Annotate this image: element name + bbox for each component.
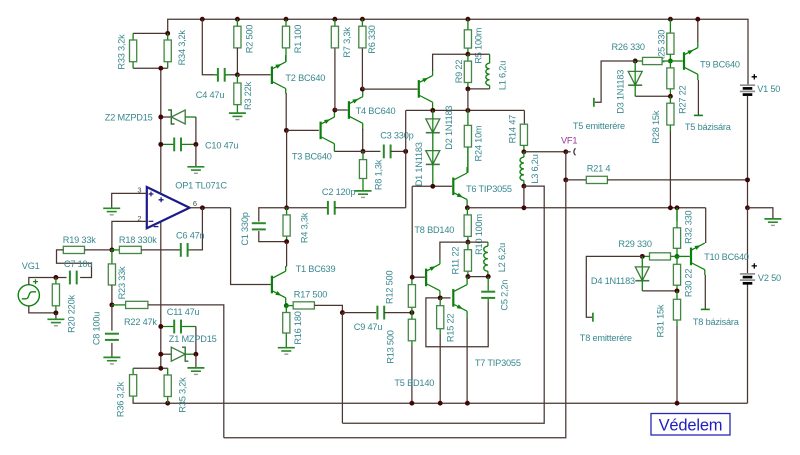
resistor R23 — [111, 250, 113, 264]
resistor R7 — [334, 19, 336, 26]
node R14 bottom / L3 top — [521, 149, 526, 154]
svg-text:R31 15k: R31 15k — [656, 304, 666, 337]
wire output down to C6 — [191, 208, 203, 250]
node R32 top on output rail — [675, 205, 680, 210]
capacitor C1 — [252, 222, 266, 224]
terminal T5 emitter — [593, 98, 595, 107]
wire T5 base — [362, 88, 417, 90]
resistor R16 — [285, 306, 287, 348]
svg-text:R33 3,2k: R33 3,2k — [117, 34, 127, 70]
wire T2 collector down — [285, 93, 287, 130]
svg-text:T10 BC640: T10 BC640 — [704, 252, 749, 262]
wire T3 collector run — [334, 150, 363, 152]
node R34 top — [165, 31, 170, 36]
op-amp OP1 TL071C — [147, 187, 190, 228]
inductor L1 — [489, 54, 491, 89]
wire T8 emitter up to R10/R11 node — [440, 242, 468, 259]
wire T5 collector riser / bias net — [406, 109, 525, 111]
svg-text:C1 330p: C1 330p — [240, 212, 250, 245]
svg-text:R5 100m: R5 100m — [474, 27, 484, 63]
ground at pin3 — [103, 207, 120, 209]
wire T6 base row — [412, 185, 452, 187]
inductor L2 — [487, 242, 489, 246]
resistor R14 — [523, 123, 525, 125]
svg-text:T6 TIP3055: T6 TIP3055 — [466, 184, 512, 194]
node R6 bottom / T4 emitter — [360, 87, 365, 92]
node R15 on -rail — [438, 401, 443, 406]
node op-amp output — [200, 205, 205, 210]
diode D4 — [641, 256, 643, 267]
node D3 anode — [633, 59, 638, 64]
node T2 collector / T3 base — [284, 128, 289, 133]
node L2/C5 — [486, 274, 491, 279]
node rail-R35 top — [158, 366, 163, 371]
node L3 bottom — [521, 184, 526, 189]
svg-text:T7 TIP3055: T7 TIP3055 — [475, 358, 521, 368]
svg-text:OP1 TL071C: OP1 TL071C — [175, 181, 227, 191]
node T3/T4 collectors R8 C3 — [361, 149, 366, 154]
transistor T2 — [271, 66, 273, 84]
svg-text:C3 330p: C3 330p — [380, 131, 413, 141]
resistor R8 — [362, 151, 364, 190]
wire to ground — [748, 208, 773, 219]
wire C4 to R2/R3 node — [230, 74, 237, 76]
wire D1 to T6 base node — [432, 164, 434, 186]
resistor R11 — [467, 242, 469, 277]
ground under R20 — [47, 318, 64, 320]
node T1 emitter / R17 / R16 — [284, 303, 289, 308]
node R2/R3/C4/T2 base — [235, 72, 240, 77]
wire output to T1 base — [231, 208, 271, 285]
wire to ground — [195, 144, 197, 166]
svg-text:C7 10u: C7 10u — [64, 259, 93, 269]
node R31 on -rail — [675, 401, 680, 406]
svg-text:L1 6,2u: L1 6,2u — [498, 61, 508, 90]
transistor T1 — [271, 276, 273, 294]
wire T5 emitter to R5/R9 node — [433, 54, 468, 71]
capacitor C9 — [342, 312, 376, 314]
ground under C8 — [103, 356, 120, 358]
transistor T6 — [452, 178, 454, 196]
node Z2 left on rail — [158, 115, 163, 120]
wire T3 base — [286, 129, 318, 131]
transistor T10 — [677, 255, 690, 257]
wire riser to T8 base — [411, 186, 413, 277]
wire C4 branch — [202, 19, 214, 75]
svg-text:R26 330: R26 330 — [612, 42, 645, 52]
riser from C2 up to bias net — [405, 110, 407, 207]
node inverting input — [109, 247, 114, 252]
svg-text:R21 4: R21 4 — [587, 163, 611, 173]
wire to ground — [55, 313, 57, 319]
node R1 top on +rail — [284, 17, 289, 22]
wire V2 plus — [747, 208, 749, 273]
wire T10 collector to terminal — [704, 270, 706, 275]
capacitor C6 — [180, 243, 182, 257]
svg-text:C2 120p: C2 120p — [322, 187, 355, 197]
resistor R17 — [286, 305, 293, 307]
svg-text:R20 220k: R20 220k — [67, 295, 77, 333]
transistor T5 — [418, 80, 420, 98]
svg-text:R35 3,2k: R35 3,2k — [178, 377, 188, 413]
ground under C10/Z2 — [187, 166, 204, 168]
wire VF1 node down to bottom feedback rail — [224, 180, 566, 438]
wire L2 top — [468, 241, 488, 243]
svg-text:V2 50: V2 50 — [758, 273, 781, 283]
wire to ground — [195, 354, 197, 367]
wire R22 right to feedback rail — [148, 305, 224, 438]
svg-text:VF1: VF1 — [561, 136, 577, 146]
wire R23 bottom — [111, 285, 113, 305]
svg-text:Védelem: Védelem — [659, 417, 723, 435]
svg-text:T8 bázisára: T8 bázisára — [693, 317, 740, 327]
ground mid supply — [764, 218, 781, 220]
node R21 left — [563, 177, 568, 182]
node R28 on output rail — [668, 205, 673, 210]
wire C5 bottom loop to T7 base — [426, 298, 488, 347]
svg-text:R32 330: R32 330 — [684, 210, 694, 243]
node R33/R34 bottom — [158, 66, 163, 71]
wire T10 emitter to output rail — [704, 242, 706, 244]
svg-text:R19 33k: R19 33k — [63, 235, 96, 245]
wire T4 collector down — [362, 129, 364, 151]
wire down to bias net — [467, 89, 469, 111]
wire op-amp output — [190, 207, 231, 209]
resistor R20 — [55, 278, 57, 313]
node R13 on -rail — [409, 401, 414, 406]
node T9 emitter on +rail — [695, 17, 700, 22]
svg-text:L2 6,2u: L2 6,2u — [497, 243, 507, 272]
node R6 top on +rail — [360, 17, 365, 22]
capacitor C2 — [287, 207, 328, 209]
resistor R29 — [671, 255, 678, 257]
svg-text:R9 22: R9 22 — [454, 60, 464, 84]
resistor R19 — [63, 246, 84, 253]
battery V1 — [740, 84, 755, 86]
svg-text:T1 BC639: T1 BC639 — [296, 264, 336, 274]
diode D3 — [634, 61, 636, 71]
ground under R16 — [278, 347, 295, 349]
svg-text:VG1: VG1 — [22, 261, 40, 271]
battery V2 — [752, 263, 757, 268]
wire VF1 down to R21 node — [565, 152, 567, 180]
wire D2-D1 — [432, 133, 434, 151]
capacitor C10 — [161, 143, 196, 145]
svg-text:D4 1N1183: D4 1N1183 — [591, 276, 635, 286]
capacitor C4 — [214, 74, 230, 76]
node R11 bottom / C5 top — [465, 274, 470, 279]
node T3 emitter / R7 / T4 base — [332, 108, 337, 113]
svg-text:Z1 MZPD15: Z1 MZPD15 — [169, 334, 217, 344]
node R24 top — [465, 108, 470, 113]
wire feedback riser down — [341, 313, 343, 424]
node C1/R4/C2 top — [284, 205, 289, 210]
node VF1 — [563, 149, 568, 154]
svg-text:R12 500: R12 500 — [385, 271, 395, 304]
svg-text:T5 emitterére: T5 emitterére — [573, 121, 625, 131]
node D1 bottom / T6 base — [430, 184, 435, 189]
node C10 right / Z2 — [193, 142, 198, 147]
node R12/R13/C9 — [409, 310, 414, 315]
svg-text:C4 47u: C4 47u — [196, 90, 225, 100]
wire -50V bottom rail — [133, 284, 747, 403]
wire output rail — [467, 208, 705, 243]
capacitor C5 — [487, 277, 489, 291]
resistor R1 — [285, 19, 287, 62]
resistor R34 — [167, 33, 169, 68]
svg-text:Z2 MZPD15: Z2 MZPD15 — [105, 112, 153, 122]
svg-text:D3 1N1183: D3 1N1183 — [616, 70, 626, 114]
inductor L3 — [523, 152, 525, 157]
voltage pin VF1 — [566, 151, 571, 153]
transistor T8 — [425, 269, 427, 287]
wire R11-L2 bottom — [468, 276, 488, 278]
capacitor C3 — [363, 150, 380, 152]
transistor T9 — [670, 60, 682, 62]
svg-text:R6 330: R6 330 — [367, 25, 377, 54]
wire R15 bottom to -rail — [439, 334, 441, 403]
svg-text:R4 3,3k: R4 3,3k — [300, 212, 310, 243]
wire T9 emitter to +rail — [697, 42, 699, 48]
resistor R30 — [676, 256, 678, 291]
wire left bias rail lower (from op-amp V-) — [160, 221, 162, 369]
resistor R10 — [466, 208, 469, 242]
node R35 bottom on -rail — [165, 401, 170, 406]
node C10 left on rail — [158, 142, 163, 147]
wire R13 bottom to -rail — [411, 346, 413, 403]
wire R6 column — [361, 48, 363, 89]
svg-text:L3 6,2u: L3 6,2u — [530, 154, 540, 183]
svg-text:R1 100: R1 100 — [293, 25, 303, 54]
node T10 base / R32 / R29 / R30 — [675, 254, 680, 259]
wire Z2 anode down — [195, 117, 197, 144]
wire R19 left jog to C7 — [57, 250, 92, 278]
node R25 top on +rail — [668, 17, 673, 22]
zener Z1 — [161, 353, 172, 355]
wire D4 cathode to R30/R31 node — [641, 281, 643, 291]
wire C1 top — [259, 208, 287, 222]
resistor R26 — [662, 60, 670, 62]
terminal T5 base — [694, 114, 703, 116]
wire T9 collector to terminal — [697, 74, 699, 80]
svg-text:D1 1N1183: D1 1N1183 — [414, 142, 424, 186]
resistor R35 — [167, 368, 169, 403]
svg-text:C11 47u: C11 47u — [167, 307, 200, 317]
node V1/R21 — [745, 177, 750, 182]
wire R28 bottom to output rail — [669, 131, 671, 208]
resistor R9 — [467, 54, 469, 89]
node R7 top on +rail — [332, 17, 337, 22]
wire R19 right to input node — [85, 249, 112, 251]
wire R7 column — [334, 48, 336, 110]
svg-text:R24 10m: R24 10m — [474, 125, 484, 161]
resistor R2 — [236, 19, 238, 26]
wire T1 collector — [286, 242, 288, 267]
node R22/C8 — [109, 302, 114, 307]
transistor T7 — [452, 289, 454, 307]
svg-text:C5 2,2n: C5 2,2n — [500, 280, 510, 311]
resistor R5 — [467, 19, 469, 54]
transistor T3 — [320, 122, 322, 140]
node T8 collector / T7 base / R15 — [438, 295, 443, 300]
wire C11 right down — [195, 327, 197, 355]
wire T8 base — [412, 276, 425, 278]
resistor R18 — [112, 249, 120, 251]
wire D3 cathode to R27/R28 node — [634, 85, 636, 96]
node R9/L1 bottom — [465, 86, 470, 91]
wire V1 minus down — [747, 96, 749, 208]
svg-text:C9 47u: C9 47u — [354, 322, 383, 332]
wire R31 bottom to -rail — [676, 326, 678, 403]
diode D1 — [426, 151, 440, 165]
svg-text:R14 47: R14 47 — [508, 115, 518, 144]
node output/L3 — [521, 205, 526, 210]
svg-text:C8 100u: C8 100u — [92, 312, 102, 345]
node VG1/R20/C7 — [53, 275, 58, 280]
wire R18 to C6 — [141, 249, 181, 251]
ground under R8 — [355, 190, 372, 192]
node T7 emitter on -rail — [465, 401, 470, 406]
svg-text:R27 22: R27 22 — [677, 85, 687, 114]
wire feedback loop right side — [342, 186, 544, 423]
source VG1 — [18, 285, 39, 306]
svg-text:R10 100m: R10 100m — [474, 214, 484, 255]
wire R35/R36 top link — [133, 367, 168, 369]
terminal T8 emitter — [592, 313, 594, 322]
wire T6 collector to R24 — [467, 147, 469, 167]
wire R21 right to supply mid — [607, 179, 747, 181]
node T6 emitter on output rail — [465, 205, 470, 210]
capacitor C7 — [69, 271, 71, 285]
wire T7 base — [440, 297, 450, 299]
resistor R28 — [669, 96, 671, 131]
svg-text:T5 BD140: T5 BD140 — [394, 378, 434, 388]
node R5/R9/L1 top — [465, 52, 470, 57]
node R2 top on +rail — [235, 17, 240, 22]
svg-text:R8 1,3k: R8 1,3k — [374, 159, 384, 190]
terminal T8 base — [701, 308, 710, 310]
resistor R3 — [236, 75, 238, 113]
svg-text:R15 22: R15 22 — [446, 314, 456, 343]
svg-text:R16 180: R16 180 — [293, 311, 303, 344]
resistor R6 — [361, 19, 363, 26]
resistor R27 — [669, 61, 671, 96]
resistor R31 — [676, 291, 678, 326]
wire L1 top — [468, 53, 490, 55]
wire T4 base — [335, 109, 348, 111]
wire to T5 emitter terminal — [595, 61, 635, 102]
svg-text:T2 BC640: T2 BC640 — [285, 73, 325, 83]
capacitor C8 — [111, 305, 113, 331]
node R4/C1 bottom / T1 collector — [284, 239, 289, 244]
svg-text:R30 22: R30 22 — [683, 269, 693, 298]
resistor R25 — [669, 19, 671, 33]
node R30/R31/D4 — [675, 288, 680, 293]
wire mid column down to C1/R4/C2 node — [286, 130, 288, 207]
wire L3 bottom to output rail — [523, 186, 525, 208]
node C11 left on rail — [158, 324, 163, 329]
wire R17 right jog — [314, 305, 342, 312]
wire VG1 plus — [29, 278, 56, 285]
svg-text:R7 3,3k: R7 3,3k — [342, 27, 352, 58]
wire R2 bottom to node — [236, 48, 238, 75]
svg-text:R23 33k: R23 33k — [117, 266, 127, 299]
svg-text:R29 330: R29 330 — [618, 239, 651, 249]
title box Vedelem — [651, 414, 730, 436]
svg-text:R36 3,2k: R36 3,2k — [116, 381, 126, 417]
wire left bias rail upper (to op-amp V+) — [160, 68, 162, 192]
svg-text:R28 15k: R28 15k — [651, 110, 661, 143]
resistor R21 — [566, 179, 587, 181]
zener Z2 — [161, 116, 172, 118]
node Z1 left on rail — [158, 352, 163, 357]
node T9 base / R25 / R26 / R27 — [668, 59, 673, 64]
node R20 bottom — [53, 310, 58, 315]
svg-text:T4 BC640: T4 BC640 — [356, 106, 396, 116]
wire to T8 emitter terminal — [586, 256, 642, 317]
svg-text:R22 47k: R22 47k — [124, 317, 157, 327]
node R10/R11/L2 — [465, 240, 470, 245]
transistor T4 — [348, 101, 350, 119]
resistor R36 — [132, 368, 134, 399]
node Z1 right — [193, 352, 198, 357]
svg-text:T9 BC640: T9 BC640 — [700, 60, 740, 70]
ground under Z1 — [187, 367, 204, 369]
svg-text:R18 330k: R18 330k — [119, 235, 157, 245]
svg-text:R11 22: R11 22 — [451, 247, 461, 275]
resistor R13 — [411, 313, 413, 346]
svg-text:C6 47n: C6 47n — [176, 230, 205, 240]
svg-text:C10 47u: C10 47u — [205, 140, 238, 150]
svg-text:R34 3,2k: R34 3,2k — [177, 30, 187, 66]
resistor R22 — [112, 304, 126, 306]
svg-text:R3 22k: R3 22k — [243, 81, 253, 110]
node supply mid — [745, 205, 750, 210]
ground under R3 — [229, 112, 246, 114]
resistor R24 — [467, 110, 469, 172]
wire to VF1 node — [524, 151, 566, 153]
node R27/R28/D3 — [668, 94, 673, 99]
svg-text:T5 bázisára: T5 bázisára — [685, 122, 732, 132]
wire VG1 minus — [29, 306, 56, 313]
node C9 left / feedback riser — [340, 310, 345, 315]
node C4 riser on +rail — [200, 17, 205, 22]
resistor R32 — [676, 208, 678, 221]
wire pin3 to ground — [112, 193, 147, 207]
wire +50V top rail — [133, 19, 748, 85]
node D4 anode — [640, 254, 645, 259]
svg-text:R2 500: R2 500 — [244, 25, 254, 54]
svg-text:D2 1N1183: D2 1N1183 — [444, 106, 454, 150]
resistor R12 — [411, 277, 413, 312]
wire R33/R34 bottom link — [133, 67, 168, 69]
node C3 on riser — [403, 149, 408, 154]
node T8 base / R12 top — [410, 275, 415, 280]
svg-text:6: 6 — [193, 199, 197, 208]
wire bias net corner to R14 — [523, 110, 525, 124]
svg-text:T8 BD140: T8 BD140 — [414, 225, 454, 235]
wire T2 base — [237, 74, 270, 76]
node R5 top on +rail — [465, 17, 470, 22]
wire T7 emitter to -rail — [466, 318, 468, 403]
svg-text:R17 500: R17 500 — [294, 289, 327, 299]
resistor R15 — [439, 298, 441, 334]
node T5 collector / D2 top — [430, 108, 435, 113]
svg-text:T3 BC640: T3 BC640 — [292, 152, 332, 162]
diode D2 — [432, 110, 434, 119]
resistor R33 — [132, 33, 134, 68]
wire C1 bottom — [259, 231, 287, 242]
